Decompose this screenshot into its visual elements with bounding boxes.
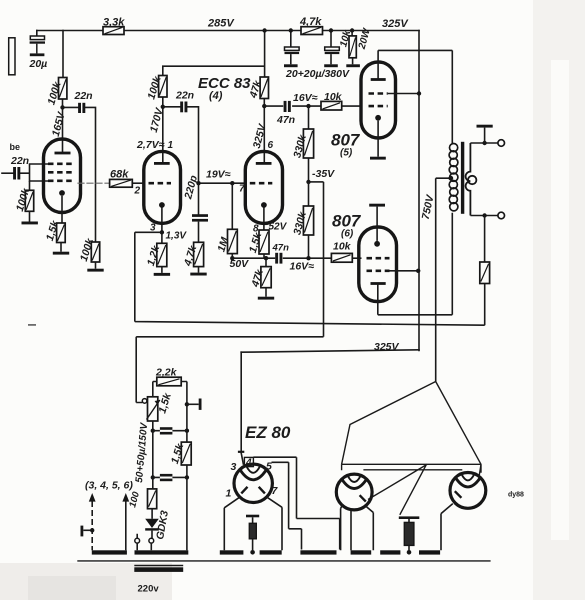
cathode arc large left socket (342, 480, 366, 488)
wiper terminal circle (142, 399, 147, 404)
svg-text:20µ: 20µ (29, 58, 48, 70)
chassis T right column (187, 399, 202, 410)
cathode arc large (241, 471, 266, 480)
capacitor 20u electrolytic (30, 36, 45, 56)
capacitor 50u upper (153, 427, 187, 434)
tube 807 no5 (361, 62, 396, 138)
anode tick left socket (360, 495, 366, 501)
wire input to 22n (2, 172, 13, 174)
screen dashes 807(6) (367, 269, 390, 272)
wire triode2 plate lead (263, 99, 265, 164)
svg-text:(4): (4) (209, 90, 223, 102)
resistor 10k grid 807(6) (331, 253, 361, 262)
diode GDK3 (145, 519, 159, 539)
chassis bar 807(5) cathode (370, 157, 386, 160)
node cap1 rail (289, 28, 293, 32)
wire 20u cap stub (36, 31, 38, 37)
resistor 2,2k (157, 377, 181, 386)
heater arc small right socket (462, 474, 475, 480)
wire primary center tap 750V (436, 178, 451, 381)
svg-text:220v: 220v (138, 584, 160, 595)
winding bar heater a (92, 550, 127, 554)
wire 22n to 100k drop (85, 107, 96, 242)
node 330k bottom (306, 256, 310, 260)
anode bar triode1 (154, 162, 170, 165)
wire plate node to 22n (63, 106, 78, 108)
svg-text:19V≈: 19V≈ (206, 169, 231, 181)
cathode dot EF86 (59, 190, 65, 196)
arrow heater a (89, 493, 96, 550)
node secondary bottom (482, 213, 486, 217)
wire 68k to triode1 grid (132, 182, 144, 184)
svg-text:-35V: -35V (312, 168, 335, 180)
grid g3 dashes (48, 163, 75, 166)
terminal circle top (498, 140, 505, 147)
wire left column mid (152, 431, 154, 478)
resistor 10k 20W (349, 31, 356, 65)
anode bar EF86 (55, 152, 71, 155)
wire bias riser vertical (323, 182, 325, 337)
svg-text:10k: 10k (324, 91, 343, 103)
chassis bar under cap1 (284, 64, 298, 67)
resistor 1.5k cathode EF86 (57, 223, 66, 252)
cathode dot triode2 (261, 202, 267, 208)
svg-text:325V: 325V (382, 18, 409, 30)
node B+ tap (262, 28, 266, 32)
ground (EF86 cathode) (53, 252, 69, 255)
tube socket 807 left (336, 474, 372, 510)
capacitor 47n lower (feedback) (275, 253, 282, 264)
terminal circle bottom (498, 212, 505, 219)
tube socket 807 right (450, 473, 486, 509)
arrow heater b (122, 493, 129, 550)
svg-text:1: 1 (168, 140, 174, 151)
node mid ballast (407, 550, 412, 555)
resistor EZ80 ballast (246, 515, 259, 551)
wire switch stubs (137, 534, 151, 551)
primary winding 220v (134, 566, 183, 572)
node 19V right (230, 181, 234, 185)
resistor 330k upper (303, 106, 313, 182)
scan speck (28, 324, 36, 326)
wire EZ80 anode riser (240, 352, 242, 452)
winding bar right (419, 550, 440, 554)
anode bar triode2 (256, 162, 272, 165)
winding bar mid 3 (380, 550, 400, 554)
tube 807 no6 inverted (359, 227, 397, 302)
node right column T (185, 402, 189, 406)
resistor 1,5k bias filter (181, 431, 191, 478)
wire triode1 cathode (161, 208, 163, 243)
wire top coupling line 16V (264, 105, 361, 107)
node arrow T (90, 528, 94, 532)
resistor 100 (148, 477, 157, 518)
node 50u top left (151, 429, 155, 433)
capacitor 22n no2 (180, 102, 187, 113)
node -35V (306, 180, 310, 184)
winding bar EZ80 right (260, 550, 282, 554)
wire socket bus H1 (342, 464, 481, 472)
input jack rectangle top-left (9, 38, 15, 75)
svg-text:6: 6 (268, 140, 274, 151)
svg-text:68k: 68k (110, 169, 129, 181)
svg-text:285V: 285V (207, 18, 235, 30)
wire left socket lead a (341, 504, 343, 550)
node 50u bottom left (151, 475, 155, 479)
svg-text:16V≈: 16V≈ (290, 261, 315, 273)
ground (47k lower) (258, 297, 274, 300)
svg-text:10k: 10k (333, 241, 352, 253)
node secondary top (482, 141, 486, 145)
winding bar mid 1 (300, 550, 336, 554)
ground (input 100k) (22, 222, 38, 225)
svg-text:52V: 52V (269, 222, 288, 233)
capacitor 22n input (13, 167, 20, 180)
transformer secondary winding (466, 143, 477, 216)
wire cathode 807(6) (376, 207, 378, 241)
wire cathode EF86 (61, 196, 63, 223)
node primary tap (448, 176, 453, 181)
node triode1 cathode (160, 230, 164, 234)
wire fan right diagonal (436, 382, 481, 465)
wire EZ80 pin3 lead (241, 452, 244, 465)
wire secondary bottom to terminal (470, 215, 497, 217)
wire 100k plate feed drop x63 (62, 31, 64, 78)
anode tick right (259, 487, 265, 494)
node plate EF86 (60, 105, 64, 109)
anode bar 807(5) (371, 78, 386, 81)
cathode arc large right socket (456, 479, 480, 487)
wire secondary top to terminal (470, 142, 497, 144)
tube ECC83 triode 1 (144, 151, 181, 223)
wire feedback long line (135, 232, 485, 325)
node 10k20W rail (350, 28, 354, 32)
chassis bar under cap2 (324, 64, 338, 67)
resistor 3.3k (103, 27, 124, 35)
tube ECC83 triode 2 (245, 151, 282, 223)
resistor 47k (triode2 plate) (260, 77, 268, 99)
wire 325V horizontal from EZ80 (241, 350, 419, 352)
wire 19V node line (199, 182, 246, 184)
resistor 4,7k (below 220p) (194, 242, 204, 272)
wire screen 807(5) (388, 93, 419, 95)
grid g2 dashes (48, 171, 75, 174)
cathode dot 807(6) (374, 241, 380, 247)
wire right socket lead (441, 504, 453, 551)
wire pot bottom (152, 421, 154, 431)
svg-text:1: 1 (226, 488, 232, 500)
winding bar EZ80 left (220, 550, 244, 554)
ground (100k right of EF86) (87, 269, 103, 272)
wire 22n no2 link (163, 107, 199, 183)
wire plate-resistor feed bar y66 (163, 31, 265, 78)
anode bar 807(6) (371, 282, 386, 285)
wire triode1 plate lead (162, 97, 164, 163)
wire 68k left from EF86 (78, 182, 110, 184)
wire 2,2k left to pot (153, 382, 157, 397)
svg-text:47n: 47n (272, 243, 290, 254)
capacitor 220p (192, 183, 208, 242)
node cap2 rail (329, 28, 333, 32)
wire fan left diagonal (342, 382, 436, 465)
node EZ80 ballast (250, 550, 255, 555)
resistor 4,7k PSU (301, 27, 323, 35)
resistor mid ballast (399, 516, 420, 550)
svg-text:3: 3 (231, 461, 237, 473)
node 50u top right (185, 429, 189, 433)
node screen 807(6) (416, 269, 420, 273)
cathode dot 807(5) (375, 115, 381, 121)
chassis T left (81, 526, 93, 537)
wire socket bus H2 (363, 469, 462, 471)
wire socket diagonal D2 (400, 465, 426, 514)
svg-text:22n: 22n (10, 155, 29, 167)
wire 22n to grid stubs (19, 164, 49, 181)
wire 50V line (232, 257, 275, 259)
transformer primary winding (449, 144, 458, 211)
pin4 box (244, 457, 253, 466)
wire anode 807(6) to OPT bottom (378, 213, 453, 315)
grid g1 dashes (48, 180, 75, 183)
heater arc small left socket (348, 476, 361, 482)
resistor 47k (lower, to ground) (261, 258, 271, 297)
wire -35V to bias riser (309, 181, 324, 183)
svg-text:be: be (10, 142, 21, 152)
node 50V mid (264, 256, 268, 260)
wire 325V riser to screens (418, 31, 420, 351)
wire B+ top rail 285V/325V (37, 30, 419, 32)
winding bar mid 2 (351, 550, 372, 554)
svg-text:50V: 50V (230, 258, 250, 270)
node 50V left (230, 256, 234, 260)
wire feedback takeoff down (484, 216, 486, 263)
node 330k top (306, 104, 310, 108)
tube EF86 input pentode (44, 139, 81, 223)
node screen 807(5) (417, 91, 421, 95)
svg-text:3,3k: 3,3k (103, 17, 125, 29)
ground (4,7k) (190, 273, 206, 276)
svg-text:(6): (6) (341, 229, 354, 240)
svg-text:7: 7 (239, 184, 245, 195)
svg-text:4,7k: 4,7k (299, 16, 322, 28)
svg-text:dy88: dy88 (508, 492, 524, 499)
wire right column to winding (186, 477, 188, 550)
node 50u bottom right (185, 475, 189, 479)
wire triode2 cathode (263, 208, 265, 230)
wire 100k bottom to EF86 plate (62, 99, 64, 153)
capacitor 20u no2 PSU (325, 31, 340, 65)
screen dashes 807(5) (369, 92, 388, 95)
tick B+ takeoff (238, 451, 244, 453)
winding bar HT (135, 550, 189, 554)
resistor 68k (110, 179, 133, 187)
tube EZ80 socket (234, 464, 272, 502)
svg-text:5: 5 (266, 461, 272, 473)
svg-text:2: 2 (134, 186, 141, 197)
svg-text:(3, 4, 5, 6): (3, 4, 5, 6) (85, 480, 133, 492)
wire heater stair 1 (253, 457, 339, 549)
svg-text:2,7V≈: 2,7V≈ (136, 139, 165, 151)
wire cathode 807(5) (377, 121, 379, 157)
svg-text:(5): (5) (340, 148, 353, 159)
svg-text:22n: 22n (74, 90, 93, 102)
wire 2,2k right column (181, 382, 187, 431)
node triode1 plate (161, 105, 165, 109)
cathode dot triode1 (159, 202, 165, 208)
resistor 100k (triode1 plate) (159, 76, 167, 98)
wire EZ80 pin1 lead (224, 497, 240, 551)
wire EZ80 pin7 lead (266, 497, 282, 551)
wire heater stair 2 (272, 462, 302, 549)
wire right diagonal into socket (479, 464, 481, 477)
potentiometer 1,5k (147, 397, 160, 421)
ground (1,2k) (154, 273, 170, 276)
chassis bar 807(6) cathode (369, 204, 385, 207)
svg-text:47n: 47n (276, 114, 295, 126)
heater arc small (246, 466, 260, 473)
resistor 100k grid input (25, 181, 33, 222)
grid dashes triode2 (250, 182, 272, 185)
svg-text:325V: 325V (374, 341, 400, 353)
svg-text:4: 4 (245, 458, 252, 469)
switch terminal circle left (135, 538, 140, 543)
wire socket diagonal D1 (368, 464, 427, 499)
resistor 1,5k (triode2 cathode) (259, 230, 269, 258)
chassis bar under 10k20W (346, 64, 360, 67)
svg-text:EZ 80: EZ 80 (245, 423, 291, 442)
wire 16V lower line (283, 257, 332, 259)
wire anode 807(5) to OPT top (378, 50, 452, 143)
capacitor 22n (EF86 plate) (78, 103, 85, 113)
anode tick right socket (455, 491, 462, 498)
grid dashes 807(5) (369, 105, 388, 108)
wire left socket lead c (366, 507, 373, 551)
svg-text:22n: 22n (175, 90, 194, 102)
resistor 100k (to ground right of EF86) (91, 242, 99, 269)
svg-text:16V≈: 16V≈ (293, 92, 318, 104)
svg-text:20+20µ/380V: 20+20µ/380V (285, 68, 350, 80)
wire left socket lead b (350, 510, 352, 551)
node 19V left (196, 181, 200, 185)
svg-text:ECC 83: ECC 83 (198, 75, 251, 92)
ground T secondary (477, 125, 493, 143)
wire screen 807(6) (390, 270, 419, 272)
capacitor 20u no1 PSU (285, 31, 300, 65)
svg-text:1,3V: 1,3V (166, 231, 188, 242)
chassis baseline (77, 560, 490, 562)
grid dashes 807(6) (367, 257, 390, 260)
capacitor 47n upper (284, 101, 291, 112)
resistor 1,2k (triode1 cathode) (157, 243, 167, 273)
resistor feedback (480, 262, 490, 284)
wire bias feed line (136, 337, 323, 403)
node triode2 plate coupling (262, 104, 266, 108)
resistor 10k grid 807(5) (321, 101, 342, 110)
transformer core bar (461, 142, 464, 214)
switch terminal circle right (149, 538, 154, 543)
capacitor 50u lower (153, 474, 187, 481)
resistor 100k (plate load EF86) (59, 78, 67, 100)
resistor 1M (228, 183, 238, 258)
resistor 330k lower (303, 182, 313, 258)
grid dashes triode1 (149, 182, 172, 185)
anode tick left (241, 487, 247, 494)
